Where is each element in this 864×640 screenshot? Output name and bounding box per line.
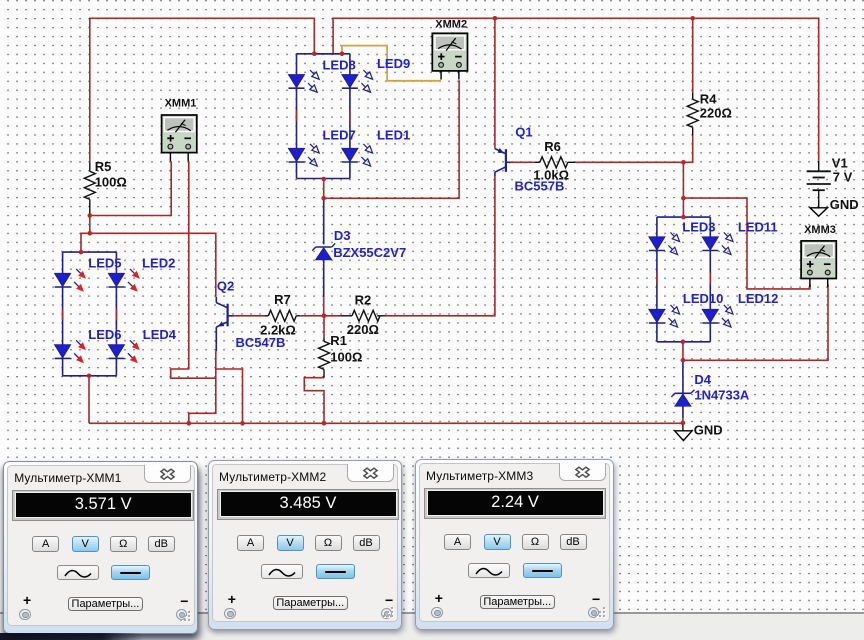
LED bridge right bottom-left LED xyxy=(649,303,682,330)
svg-text:BZX55C2V7: BZX55C2V7 xyxy=(333,245,406,260)
LED bridge middle xyxy=(297,53,350,55)
multimeter window XMM1 xyxy=(3,461,198,634)
node LED6 rail xyxy=(87,374,92,379)
bottom gray strip xyxy=(0,612,864,640)
wire: Q1 emitter from top rail xyxy=(494,18,496,148)
LED bridge right bottom-right LED xyxy=(702,303,735,330)
multimeter icon XMM1 xyxy=(162,115,197,161)
wire: node x=683 down to LED3 rail xyxy=(682,162,684,217)
multimeter icon XMM2 xyxy=(432,33,467,79)
wire R1 bottom lead xyxy=(323,369,325,377)
node R5/XMM1+ xyxy=(88,213,93,218)
wire: R6 right to R4 bottom corner xyxy=(568,161,575,163)
node rail/emitter xyxy=(187,421,192,426)
svg-text:LED1: LED1 xyxy=(377,127,410,142)
node D4/XMM3- xyxy=(681,358,686,363)
svg-text:R7: R7 xyxy=(274,292,291,307)
LED bridge middle top-left LED xyxy=(289,68,322,95)
wire R4 top lead xyxy=(692,92,694,99)
node LED5 rail xyxy=(79,250,84,255)
wire: node to R1 top xyxy=(323,316,325,338)
svg-text:Q1: Q1 xyxy=(515,125,532,140)
svg-text:LED8: LED8 xyxy=(323,57,356,72)
wire: XMM3 + xyxy=(683,198,810,289)
wire: emitter branch to bottom rail via x=242 xyxy=(216,369,243,423)
node D3/XMM2- xyxy=(321,196,326,201)
svg-text:100Ω: 100Ω xyxy=(330,349,362,364)
node top-rail/R4 xyxy=(690,16,695,21)
node rail/GND xyxy=(681,421,686,426)
wire: D3 branch from LED7 rail xyxy=(323,179,325,198)
node LED10 rail xyxy=(681,340,686,345)
svg-text:R5: R5 xyxy=(95,159,112,174)
node LED8-rail/orange xyxy=(340,52,345,57)
transistor Q2 xyxy=(216,297,234,352)
svg-text:7 V: 7 V xyxy=(833,170,853,185)
LED bridge middle bottom-left LED xyxy=(289,142,322,169)
node top-rail/Q1-emitter xyxy=(493,16,498,21)
svg-text:LED2: LED2 xyxy=(142,255,175,270)
wire: base row y=315.5 Q2 to R7 xyxy=(234,315,264,317)
svg-text:XMM2: XMM2 xyxy=(435,18,467,30)
node R6/R4/LED3 xyxy=(681,160,686,165)
node LED8-rail/top wire xyxy=(312,52,317,57)
wire overlay on LED8 rail xyxy=(314,53,342,55)
wire: top-left net from R5 to LED8 rail xyxy=(90,18,314,162)
resistor R6 xyxy=(540,157,568,168)
svg-text:R6: R6 xyxy=(544,139,561,154)
svg-text:220Ω: 220Ω xyxy=(700,106,732,121)
wire: R7 to D3 node to R2 xyxy=(296,315,300,317)
node LED3 rail xyxy=(681,215,686,220)
multimeter window XMM3 xyxy=(415,459,614,630)
wire D4 anode lead xyxy=(682,360,684,393)
wire D4 cathode lead xyxy=(682,406,684,418)
wire: bottom ground rail xyxy=(89,422,683,424)
wire: node row y=233 to LED5 rail and Q2 collector xyxy=(81,233,216,296)
wire D3 to base row xyxy=(323,297,325,316)
svg-text:GND: GND xyxy=(830,197,859,212)
wire: XMM2 - to D3 node xyxy=(324,80,459,198)
svg-text:LED12: LED12 xyxy=(738,291,778,306)
resistor R1 xyxy=(319,341,330,369)
svg-text:220Ω: 220Ω xyxy=(347,322,379,337)
LED bridge right xyxy=(657,216,710,218)
svg-text:LED7: LED7 xyxy=(323,127,356,142)
resistor R5 xyxy=(84,171,95,199)
LED bridge right top-left LED xyxy=(649,230,682,257)
svg-text:LED6: LED6 xyxy=(88,327,121,342)
wire D4 to rail xyxy=(682,418,684,423)
svg-text:R1: R1 xyxy=(330,333,347,348)
multimeter icon XMM3 xyxy=(801,241,836,287)
multimeter window XMM2 xyxy=(208,460,402,630)
wire R5 top lead xyxy=(89,162,91,171)
zener diode D3 xyxy=(312,243,335,259)
node rail/branch xyxy=(240,421,245,426)
svg-text:D4: D4 xyxy=(694,372,711,387)
LED bridge left top-left LED xyxy=(55,266,89,294)
wire R4 top to rail xyxy=(692,18,694,92)
svg-text:LED9: LED9 xyxy=(377,56,410,71)
svg-text:R4: R4 xyxy=(700,91,717,106)
LED bridge middle bottom-right LED xyxy=(342,142,375,169)
zener diode D4 xyxy=(671,390,694,406)
wire: LED10 rail to D4 xyxy=(682,342,684,361)
node R5/row xyxy=(88,231,93,236)
node base-row/D3/R1 xyxy=(322,314,327,319)
node LED7-rail/D3 xyxy=(321,177,326,182)
node LED3-feed/XMM3+ xyxy=(681,196,686,201)
battery V1 xyxy=(807,161,831,200)
LED bridge left bottom-left LED xyxy=(55,338,89,366)
wire: LED6 rail down to bottom rail xyxy=(88,376,90,424)
svg-text:V1: V1 xyxy=(832,155,848,170)
wire: top rail LED8 to V1 xyxy=(333,18,819,161)
svg-text:LED4: LED4 xyxy=(143,327,177,342)
LED bridge left xyxy=(63,251,117,253)
wire D3 cathode lead xyxy=(323,260,325,298)
svg-text:R2: R2 xyxy=(355,292,372,307)
wire: XMM3 - to D4 node xyxy=(683,284,828,360)
wire: R2 right to Q1 collector xyxy=(377,315,386,317)
svg-text:100Ω: 100Ω xyxy=(95,174,127,189)
svg-text:BC557B: BC557B xyxy=(515,179,565,194)
LED bridge left top-right LED xyxy=(108,266,142,294)
wire R5 to node row xyxy=(89,216,91,234)
svg-text:LED5: LED5 xyxy=(88,255,121,270)
wire: Q2 emitter to bottom rail xyxy=(189,351,216,423)
svg-text:LED10: LED10 xyxy=(683,291,723,306)
LED bridge left bottom-right LED xyxy=(108,338,142,366)
ground GND at V1 xyxy=(810,199,827,216)
svg-text:XMM3: XMM3 xyxy=(804,224,836,236)
resistor R2 xyxy=(352,310,380,321)
svg-text:LED3: LED3 xyxy=(682,219,715,234)
wire R4 bottom lead xyxy=(692,127,694,135)
wire R5 bottom lead xyxy=(89,199,91,215)
ground GND at bottom rail xyxy=(675,423,692,440)
wire: XMM1 - down with jog to Q2 emitter xyxy=(171,161,216,378)
svg-text:LED11: LED11 xyxy=(738,219,778,234)
wire: XMM2 + orange to LED8 rail xyxy=(342,46,441,81)
svg-text:XMM1: XMM1 xyxy=(165,98,197,110)
wire D3 anode lead xyxy=(323,198,325,244)
svg-text:Q2: Q2 xyxy=(217,279,234,294)
wire: XMM1 + to R5 node xyxy=(90,161,171,215)
svg-text:GND: GND xyxy=(694,423,723,438)
resistor R7 xyxy=(268,310,296,321)
svg-text:D3: D3 xyxy=(334,228,351,243)
node rail/R1 xyxy=(322,421,327,426)
transistor Q1 xyxy=(495,148,510,177)
LED bridge middle top-right LED xyxy=(342,68,375,95)
resistor R4 xyxy=(687,99,698,127)
dark shadow bar under active window xyxy=(0,633,143,640)
svg-text:1N4733A: 1N4733A xyxy=(694,388,750,403)
LED bridge right top-right LED xyxy=(702,230,735,257)
svg-text:BC547B: BC547B xyxy=(236,335,286,350)
wire: Q1 base to R6 xyxy=(509,161,534,163)
wire: R1 bottom jog to bottom rail xyxy=(304,378,324,424)
